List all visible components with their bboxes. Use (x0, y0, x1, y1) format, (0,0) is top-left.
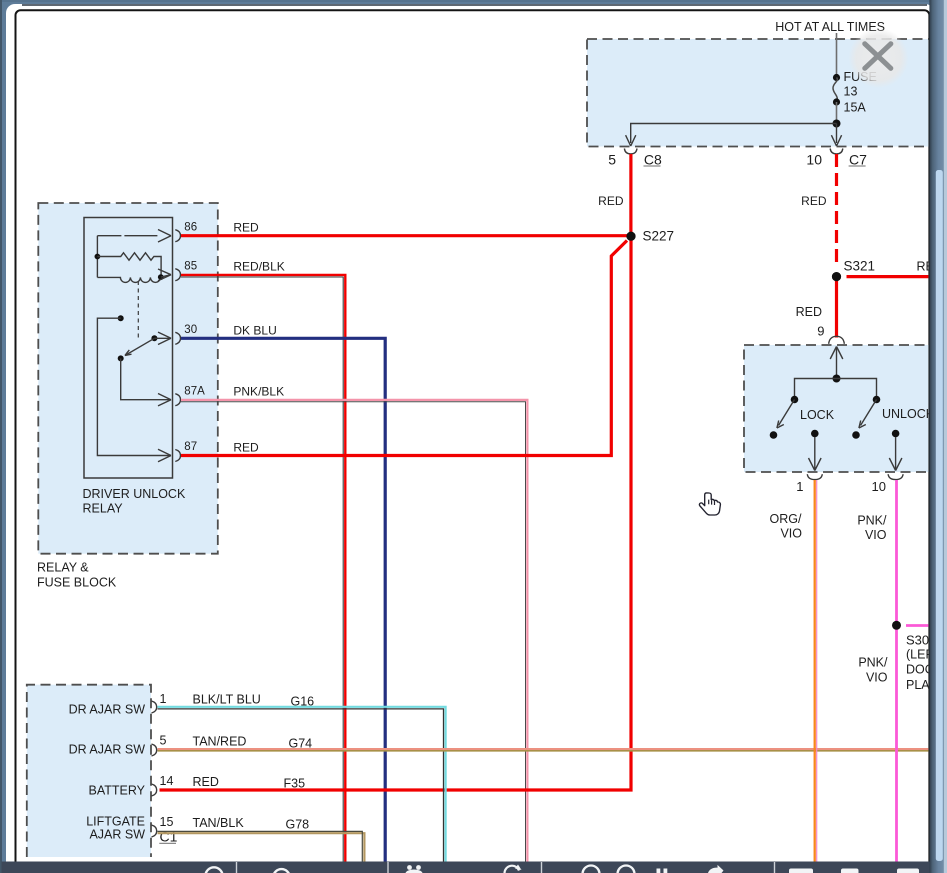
close button (849, 28, 909, 88)
svg-text:5: 5 (160, 734, 167, 748)
arrow pin9 into box (830, 347, 843, 379)
wire ORG/VIO (815, 480, 817, 862)
svg-text:87A: 87A (184, 385, 205, 397)
label DRIVER UNLOCK RELAY (83, 487, 186, 515)
svg-text:PNK/: PNK/ (858, 656, 888, 670)
svg-text:G16: G16 (291, 695, 315, 709)
wire BLK/LT BLU G16 (158, 707, 446, 862)
arrow into C8 (626, 135, 636, 146)
label ORG/VIO (770, 512, 803, 540)
node S227 (627, 229, 675, 244)
wire TAN/BLK G78 (158, 831, 365, 861)
svg-text:30: 30 (184, 324, 197, 336)
pin 1 cup (lock) (807, 474, 822, 479)
svg-text:VIO: VIO (780, 527, 802, 541)
UNLOCK output contact to pin 10 (889, 430, 902, 471)
svg-text:1: 1 (796, 479, 803, 494)
pin 5 cup (152, 744, 157, 756)
toolbar icon circle 4 (618, 866, 635, 873)
wire branch to C8 (631, 124, 837, 144)
svg-text:5: 5 (608, 151, 616, 167)
svg-text:UNLOCK: UNLOCK (882, 407, 935, 421)
node S321 (832, 259, 875, 282)
relay &amp; fuse block dashed box (38, 203, 218, 554)
svg-text:13: 13 (844, 85, 858, 99)
toolbar icon circle 3 (583, 866, 600, 873)
toolbar icon person (406, 865, 423, 873)
connector C1 label (159, 829, 177, 845)
svg-text:G78: G78 (286, 818, 310, 832)
pin 30 cup (175, 332, 180, 344)
svg-text:VIO: VIO (865, 528, 887, 542)
label PNK/VIO lower (858, 656, 888, 685)
svg-text:TAN/BLK: TAN/BLK (193, 816, 245, 830)
toolbar icon undo arrow (505, 865, 522, 873)
svg-text:15: 15 (160, 815, 174, 829)
svg-text:14: 14 (160, 774, 174, 788)
svg-text:RED: RED (233, 221, 259, 235)
svg-text:DK BLU: DK BLU (233, 323, 276, 337)
svg-text:BLK/LT BLU: BLK/LT BLU (193, 693, 261, 707)
lock/unlock switch box (744, 345, 942, 472)
svg-text:DRIVER UNLOCK: DRIVER UNLOCK (83, 487, 186, 501)
junction in switch box (833, 375, 841, 383)
driver unlock relay outline (84, 218, 173, 479)
toolbar icon card 1 (789, 869, 813, 873)
svg-text:S321: S321 (844, 259, 876, 274)
wire RED from S321 to right (847, 275, 929, 278)
toolbar icon circle 2 (273, 869, 289, 873)
connector C8 label (644, 152, 663, 168)
coil (relay winding) (97, 269, 171, 282)
svg-text:RELAY: RELAY (83, 502, 124, 516)
toolbar separator 2 (387, 862, 389, 873)
fixed contact upper (to pin 87) (97, 315, 171, 462)
pin 14 cup (152, 784, 157, 796)
wire RED pin86 to S227 (181, 234, 631, 237)
toolbar icon pause (657, 869, 668, 873)
svg-text:RELAY &: RELAY & (37, 561, 89, 575)
pin 10 cup (unlock) (888, 474, 903, 479)
svg-text:DR AJAR SW: DR AJAR SW (69, 743, 146, 757)
svg-text:RED: RED (796, 305, 822, 319)
svg-text:BATTERY: BATTERY (89, 784, 146, 798)
svg-text:VIO: VIO (866, 671, 888, 685)
switch pivot (pin 30 internal) (151, 332, 171, 344)
wire RED C8 to S227 (629, 154, 632, 236)
wire DK BLU pin30 (181, 338, 385, 861)
svg-text:G74: G74 (289, 737, 313, 751)
toolbar icon card 2 (841, 869, 859, 873)
toolbar icon card 3 (897, 869, 919, 873)
label PNK/VIO (857, 514, 887, 543)
wire fuse feed (836, 33, 838, 78)
svg-text:LOCK: LOCK (800, 408, 835, 422)
svg-text:87: 87 (184, 441, 197, 453)
wire RED S321 down to pin 9 (835, 281, 838, 338)
svg-text:RED: RED (233, 441, 259, 455)
toolbar separator 4 (774, 862, 776, 873)
panel top edge dark line (22, 4, 927, 5)
svg-text:PNK/: PNK/ (857, 514, 887, 528)
connector pin 9 cup (829, 336, 845, 344)
arrow into C7 (831, 135, 841, 146)
svg-text:86: 86 (184, 221, 197, 233)
svg-text:1: 1 (160, 692, 167, 706)
svg-text:ORG/: ORG/ (770, 512, 802, 526)
svg-text:RED: RED (598, 194, 624, 208)
svg-text:C8: C8 (644, 152, 662, 168)
wire RED S227 down to battery feed (160, 236, 632, 790)
wire RED pin87 (181, 241, 627, 456)
svg-text:9: 9 (817, 324, 824, 339)
switch blade with arrowhead (125, 338, 154, 355)
toolbar icon share arrow (708, 865, 724, 873)
pin 86 cup (175, 230, 180, 242)
right frame / scrollbar (929, 0, 947, 873)
pin 85 cup (175, 269, 180, 281)
svg-text:C7: C7 (849, 152, 867, 168)
toolbar (2, 862, 930, 873)
UNLOCK switch (852, 396, 880, 439)
LOCK output contact to pin 1 (809, 430, 822, 471)
svg-text:FUSE BLOCK: FUSE BLOCK (37, 576, 117, 590)
connector C7 cup (830, 149, 843, 154)
node S309 (892, 621, 945, 692)
label RELAY &amp; FUSE BLOCK (37, 561, 117, 590)
svg-text:10: 10 (872, 479, 886, 494)
svg-text:AJAR SW: AJAR SW (89, 828, 145, 842)
svg-text:DR AJAR SW: DR AJAR SW (69, 703, 146, 717)
svg-text:RED/BLK: RED/BLK (233, 260, 284, 274)
pin 1 cup (152, 701, 157, 713)
node S227 dot overlay (626, 232, 635, 241)
wire PNK/BLK pin87A (181, 400, 527, 862)
pin 87 cup (175, 450, 180, 462)
pin 15 cup (152, 825, 157, 837)
label FUSE 13 15A (844, 70, 877, 115)
svg-text:TAN/RED: TAN/RED (193, 735, 247, 749)
connector C8 cup (624, 149, 637, 154)
toolbar separator 3 (541, 862, 543, 873)
fuse F13 (833, 74, 840, 106)
door switch connector box (27, 685, 151, 857)
svg-text:F35: F35 (284, 777, 306, 791)
svg-text:RED: RED (193, 775, 219, 789)
relay coil feed wire (pin 86 internal) (97, 230, 171, 278)
contact lower (to pin 87A) (118, 355, 171, 406)
junction dot coil/resistor left (95, 254, 101, 260)
wire switch feed rail (795, 379, 877, 400)
fuse block box (HOT AT ALL TIMES) (587, 39, 942, 147)
mouse cursor (699, 493, 720, 515)
svg-text:10: 10 (806, 151, 822, 167)
label LIFTGATE AJAR SW (86, 815, 145, 842)
wire fuse to junction (836, 102, 838, 124)
wire TAN/RED G74 (158, 749, 929, 751)
toolbar separator 1 (236, 862, 238, 873)
svg-text:15A: 15A (844, 101, 867, 115)
mechanical link dashed (137, 281, 139, 341)
resistor (relay) (97, 253, 161, 277)
svg-text:S227: S227 (643, 229, 675, 244)
wire RED dashed C7 to S321 (835, 154, 838, 268)
wire branch to C7 (836, 124, 838, 144)
wire RED/BLK pin85 (181, 275, 345, 862)
LOCK switch (770, 396, 799, 439)
wire PNK/VIO branch right (906, 624, 929, 627)
svg-text:LIFTGATE: LIFTGATE (86, 815, 145, 829)
junction in fuse box (833, 120, 841, 128)
svg-text:85: 85 (184, 260, 197, 272)
connector C7 label (849, 152, 868, 168)
pin 87A cup (175, 394, 180, 406)
toolbar icon circle 1 (205, 867, 222, 873)
svg-text:RED: RED (801, 194, 827, 208)
svg-text:PNK/BLK: PNK/BLK (233, 385, 284, 399)
wire PNK/VIO (895, 480, 898, 862)
node S321 dot overlay (832, 272, 841, 281)
